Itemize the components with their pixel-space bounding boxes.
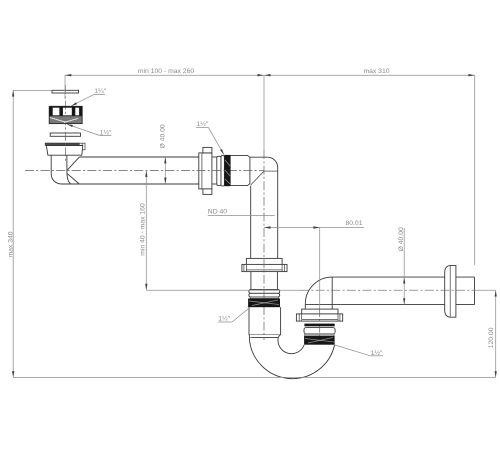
svg-text:1½″: 1½″ bbox=[218, 315, 230, 323]
outlet pipe end cap bbox=[474, 277, 476, 305]
dimension 120.00 bbox=[495, 290, 497, 377]
trap outlet narrow band bbox=[305, 334, 334, 336]
svg-text:Ø 40.00: Ø 40.00 bbox=[159, 124, 166, 148]
inlet pipe bbox=[79, 156, 199, 158]
svg-text:max 310: max 310 bbox=[363, 68, 389, 75]
elbow top of vertical pipe bbox=[250, 156, 268, 158]
svg-text:120.00: 120.00 bbox=[488, 327, 495, 348]
svg-text:ND 40: ND 40 bbox=[208, 209, 227, 216]
tailpiece rim tab bbox=[79, 143, 85, 150]
outlet pipe bbox=[332, 276, 445, 278]
thread band inlet union bbox=[224, 155, 230, 186]
inlet pipe centerline bbox=[25, 170, 264, 172]
U-bend inner arc bbox=[278, 338, 304, 354]
wall flange bbox=[445, 265, 456, 317]
thread band trap inlet bbox=[248, 299, 280, 308]
trap outlet O-ring bbox=[304, 324, 334, 327]
tailpiece cup rim bbox=[45, 143, 79, 146]
dimension diameter 40.00 inlet bbox=[164, 157, 166, 184]
svg-text:min 100 - max 260: min 100 - max 260 bbox=[138, 68, 195, 75]
dimension 80.01 bbox=[264, 227, 364, 229]
trap union nut upper bbox=[246, 258, 282, 264]
bottom reference line bbox=[13, 376, 496, 378]
outlet elbow bbox=[305, 277, 332, 304]
trap outlet olive ring bbox=[304, 327, 335, 334]
svg-text:Ø 40.00: Ø 40.00 bbox=[398, 227, 405, 251]
drain nut hatched band bbox=[50, 116, 82, 123]
tailpiece cup body bbox=[46, 146, 83, 156]
vertical pipe centerline bbox=[263, 150, 265, 340]
dimension min 100 - max 260 and max 310 bbox=[65, 74, 475, 76]
washer bottom bbox=[50, 133, 80, 136]
drain knurled nut body bbox=[49, 106, 82, 123]
dimension max 340 bbox=[12, 90, 14, 377]
union nut inlet bbox=[199, 153, 212, 189]
washer top bbox=[52, 90, 79, 93]
svg-text:max 340: max 340 bbox=[7, 231, 14, 257]
olive rings bbox=[249, 289, 280, 293]
compression rings bbox=[217, 156, 221, 185]
U-bend outer arc bbox=[249, 338, 334, 379]
dimension diameter 40.00 outlet bbox=[403, 228, 405, 305]
thread band trap outlet bbox=[304, 336, 335, 345]
trap union nut outlet bbox=[302, 309, 338, 314]
svg-text:min 40 - max 160: min 40 - max 160 bbox=[140, 203, 147, 256]
elbow socket sleeve bbox=[230, 155, 250, 185]
svg-text:80.01: 80.01 bbox=[345, 220, 362, 227]
trap outlet centerline bbox=[319, 308, 321, 344]
dimension min 40 - max 160 bbox=[145, 171, 147, 291]
tailpiece tube and elbow bbox=[50, 155, 52, 174]
knurl bars of drain nut bbox=[49, 107, 53, 116]
drain centerline bbox=[64, 85, 66, 161]
svg-text:1½″: 1½″ bbox=[196, 120, 208, 128]
outlet pipe centerline bbox=[300, 289, 475, 291]
vertical pipe below nut bbox=[250, 272, 252, 290]
trap inlet cup bbox=[248, 307, 250, 335]
